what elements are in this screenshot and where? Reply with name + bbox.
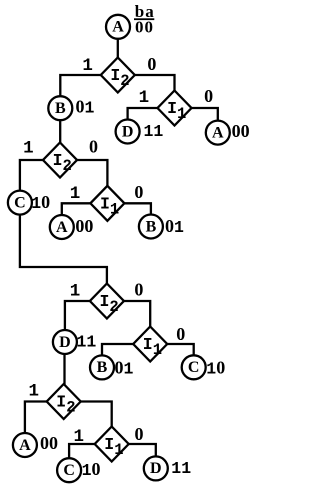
svg-text:C: C [188, 359, 200, 376]
svg-text:D: D [122, 123, 134, 140]
svg-text:B: B [97, 359, 108, 376]
wire I1 level4 left branch to B [102, 344, 134, 356]
svg-text:11: 11 [144, 122, 164, 141]
svg-text:C: C [14, 194, 26, 211]
wire I2 level1 left branch to B [60, 75, 101, 97]
wire B level2 down to I2 level3 [59, 120, 61, 144]
svg-text:B: B [55, 100, 66, 117]
wire root A to I2 level1 [117, 38, 119, 59]
wire I2 level5 left branch to A [25, 402, 47, 434]
wire C level3 down across to I2 level4 [20, 214, 107, 285]
node D level4 circle [53, 330, 77, 354]
svg-text:11: 11 [171, 459, 191, 478]
wire I1 level5 right branch to D [128, 444, 156, 457]
wire I1 level2 right branch to A [191, 108, 218, 121]
svg-text:0: 0 [134, 182, 143, 202]
svg-text:00: 00 [40, 433, 58, 453]
svg-text:1: 1 [82, 56, 93, 76]
wire I1 level4 right branch to C [167, 344, 194, 356]
node D level2 circle [116, 120, 140, 144]
node A root circle [106, 15, 130, 39]
wire I2 level4 left branch to D [65, 301, 91, 331]
node C level5 circle [57, 458, 81, 482]
wire I1 level3 left branch to A [62, 203, 91, 215]
node A level2 circle [206, 121, 230, 145]
svg-text:10: 10 [31, 192, 50, 213]
node A level3 circle [50, 215, 74, 239]
decision diamond I2 level3 [43, 143, 77, 178]
svg-text:A: A [212, 124, 224, 141]
svg-text:1: 1 [74, 427, 85, 447]
wire I2 level5 right branch to I1 level5 [80, 402, 112, 428]
decision diamond I2 level5 [47, 384, 81, 419]
svg-text:1: 1 [70, 184, 81, 204]
wire D level4 down to I2 level5 [63, 353, 65, 384]
svg-text:1: 1 [70, 282, 81, 302]
decision diamond I2 level4 [90, 284, 124, 319]
svg-text:10: 10 [206, 358, 225, 379]
node B level4 circle [90, 355, 114, 379]
wire I2 level4 right branch to I1 level4 [123, 301, 150, 328]
decision diamond I1 level5 [95, 427, 129, 462]
node B level2 circle [48, 96, 72, 120]
wire I2 level3 left branch to C [20, 160, 44, 191]
svg-text:D: D [150, 460, 162, 477]
svg-text:C: C [63, 462, 75, 479]
decision diamond I1 level2 [158, 91, 192, 126]
svg-text:01: 01 [76, 97, 95, 118]
svg-text:B: B [146, 218, 157, 235]
node C level4 circle [182, 355, 206, 379]
svg-text:0: 0 [147, 54, 156, 74]
wire I2 level1 right branch to I1 level2 [135, 75, 175, 92]
svg-text:1: 1 [28, 382, 39, 402]
svg-text:00: 00 [232, 121, 250, 141]
decision diamond I2 level1 [101, 58, 135, 93]
node D level5 circle [144, 456, 168, 480]
wire I1 level2 left branch to D [128, 108, 158, 120]
svg-text:01: 01 [165, 216, 184, 237]
svg-text:A: A [56, 219, 68, 236]
node C level3 circle [8, 191, 32, 215]
svg-text:D: D [59, 334, 71, 351]
svg-text:0: 0 [176, 324, 185, 344]
decision diamond I1 level3 [90, 186, 124, 221]
svg-text:0: 0 [135, 424, 144, 444]
svg-text:1: 1 [139, 88, 150, 108]
wire I1 level5 left branch to C [69, 444, 95, 459]
svg-text:A: A [19, 437, 31, 454]
wire I2 level3 right branch to I1 level3 [77, 160, 108, 187]
svg-text:0: 0 [89, 137, 98, 157]
svg-text:A: A [112, 19, 124, 36]
svg-text:0: 0 [204, 86, 213, 106]
decision diamond I1 level4 [133, 327, 167, 362]
svg-text:0: 0 [134, 280, 143, 300]
svg-text:00: 00 [75, 216, 93, 236]
svg-text:1: 1 [23, 139, 34, 159]
svg-text:10: 10 [82, 459, 101, 480]
svg-text:00: 00 [135, 18, 154, 37]
svg-text:01: 01 [115, 358, 134, 379]
node B level3 circle [139, 215, 163, 239]
underline of ba [134, 18, 154, 20]
svg-text:11: 11 [77, 333, 97, 352]
wire I1 level3 right branch to B [124, 203, 151, 215]
node A level5 circle [13, 433, 37, 457]
